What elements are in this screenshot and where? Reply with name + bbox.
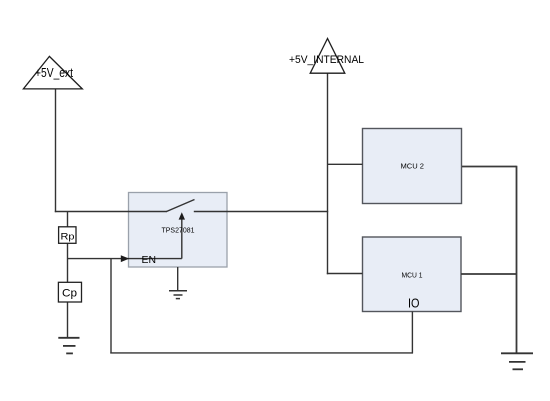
svg-text:IO: IO <box>408 295 420 310</box>
svg-text:Cp: Cp <box>62 288 77 300</box>
svg-text:MCU 1: MCU 1 <box>402 270 423 279</box>
svg-text:EN: EN <box>142 254 157 266</box>
svg-text:TPS27081: TPS27081 <box>162 226 195 235</box>
svg-text:+5V_INTERNAL: +5V_INTERNAL <box>289 54 364 66</box>
svg-text:Rp: Rp <box>61 232 75 243</box>
svg-text:+5V_ext: +5V_ext <box>35 66 73 80</box>
svg-text:MCU 2: MCU 2 <box>401 162 425 171</box>
